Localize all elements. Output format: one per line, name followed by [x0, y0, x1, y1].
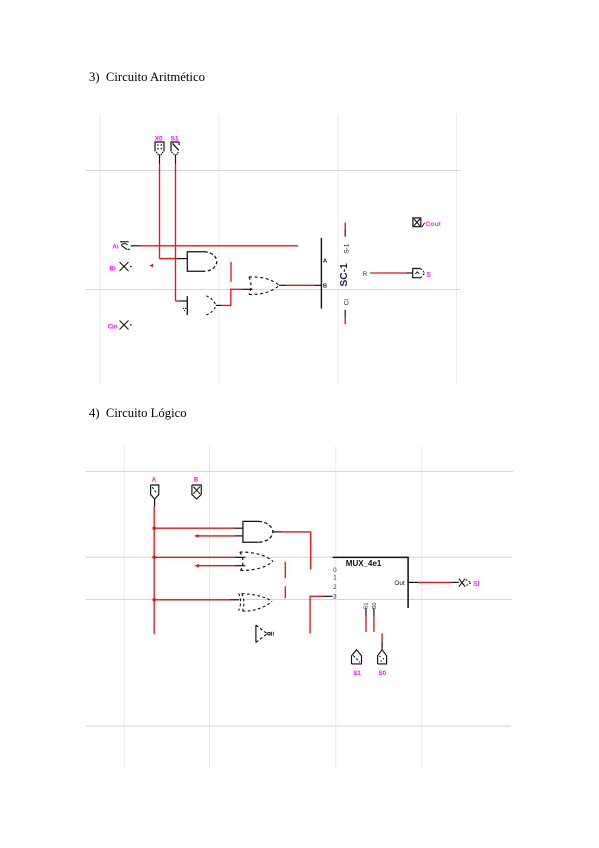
svg-text:B: B [194, 478, 199, 484]
XOR gate U6 [239, 594, 272, 612]
wire to MUX pin 3 [310, 596, 323, 633]
MUX_4e1 box [333, 557, 409, 608]
OR gate U5 [240, 552, 273, 570]
SC-1 block left bar [320, 238, 322, 309]
AND output red stub (vertical) [230, 262, 232, 282]
wire S1 to XOR input [176, 300, 180, 302]
XOR gate U2 body [206, 296, 216, 315]
OR output dashed red net [284, 562, 286, 598]
svg-text:Ci: Ci [343, 298, 350, 305]
svg-text:X0: X0 [155, 135, 163, 142]
wire from S1 [175, 155, 177, 164]
AND gate U4 [243, 521, 273, 542]
svg-text:Ai: Ai [112, 244, 118, 251]
svg-text:S0: S0 [372, 602, 378, 609]
AND gate U1 [187, 252, 217, 271]
AND output wire to MUX area [273, 531, 282, 533]
svg-text:S-1: S-1 [343, 243, 350, 254]
output port Cout [413, 218, 425, 227]
wire X0 to AND input [160, 258, 178, 260]
svg-text:2: 2 [333, 585, 337, 591]
junction A/OR [152, 556, 156, 560]
svg-text:B: B [323, 284, 327, 290]
svg-text:Cout: Cout [426, 221, 442, 228]
svg-text:SC-1: SC-1 [339, 263, 350, 287]
svg-text:1: 1 [333, 576, 337, 582]
output no-connect X [459, 579, 465, 587]
wire A to AND [154, 527, 234, 529]
dangling arrowhead Bi net [149, 264, 153, 268]
svg-text:S: S [426, 272, 431, 279]
switch X0 (logic input, circuit 3) [155, 142, 164, 156]
wire A to XOR [154, 599, 230, 601]
svg-text:Out: Out [394, 580, 405, 587]
MUX select wire 2 [373, 608, 375, 616]
wire R to output S [370, 272, 407, 274]
wire A vertical [154, 499, 156, 507]
OR output wire to SC-1 B [279, 284, 286, 286]
junction A/AND [152, 526, 156, 530]
XOR output wire to OR [216, 304, 222, 306]
svg-text:S1: S1 [363, 602, 369, 609]
wire B arrow to OR [194, 564, 199, 568]
svg-text:A: A [323, 258, 328, 264]
MUX select wire 1 [365, 608, 367, 616]
output diamond mark [466, 580, 471, 586]
input Ai switch symbol [120, 242, 129, 250]
output port S [413, 269, 425, 278]
NOT gate U7 [256, 625, 273, 642]
svg-text:Bi: Bi [109, 266, 115, 273]
XOR gate U2 tiny marks [183, 308, 185, 310]
svg-text:0: 0 [333, 568, 337, 574]
svg-text:MUX_4e1: MUX_4e1 [346, 559, 382, 568]
MUX output wire [408, 581, 418, 583]
svg-text:Cin: Cin [108, 324, 118, 331]
XOR gate U2 leading bar [186, 296, 188, 315]
OR gate U3 [249, 277, 279, 295]
svg-text:S1: S1 [353, 670, 361, 677]
SC-1 bottom pin wire [344, 310, 346, 318]
connector B (input, circuit 4) [192, 485, 201, 499]
section title 3 [89, 70, 205, 85]
wire B arrow to AND [194, 534, 199, 538]
wire Ai [131, 245, 140, 247]
connector S1 (bottom) [352, 650, 362, 664]
connector S0 (bottom) [378, 650, 387, 664]
SC-1 top pin wire [344, 223, 346, 230]
connector A (input, circuit 4) [151, 485, 159, 499]
wire from X0 [159, 155, 161, 164]
wire A to OR [154, 556, 235, 558]
svg-text:A: A [152, 478, 157, 484]
svg-text:S0: S0 [379, 670, 387, 677]
svg-text:Sl: Sl [473, 581, 480, 588]
svg-text:S1: S1 [171, 135, 179, 142]
input Bi no-connect X [120, 262, 131, 271]
section title 4 [89, 406, 187, 421]
wire S0 up [381, 633, 383, 641]
junction A/XOR [152, 598, 156, 602]
switch S1 (logic input, circuit 3) [171, 142, 179, 156]
svg-text:R: R [363, 272, 368, 278]
input Cin no-connect X [120, 321, 131, 330]
